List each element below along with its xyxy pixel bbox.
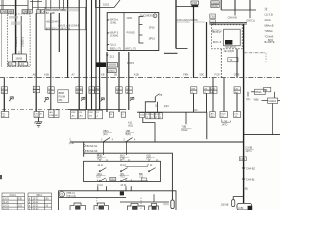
svg-text:D912: D912 [182, 129, 189, 132]
svg-text:YB: YB [159, 94, 163, 97]
wire U hook down [206, 112, 208, 139]
svg-text:N(3): N(3) [210, 21, 215, 24]
speaker unit 2 [94, 203, 109, 210]
wire trunk N [95, 0, 97, 110]
svg-text:C(N: C(N [140, 114, 144, 116]
svg-text:08B: 08B [8, 10, 13, 14]
wire trunk T [193, 7, 195, 78]
wire O cont [99, 94, 101, 111]
pin ticks inside B1 bottom [98, 180, 131, 182]
wire L-route under row2 [143, 118, 155, 142]
cluster bottom-right of bus: brake boxes [255, 87, 278, 103]
svg-text:2P16: 2P16 [149, 26, 155, 29]
wire trunk J [67, 0, 69, 78]
harness dashed box D1 [7, 14, 30, 67]
diamond CN4-B1 [242, 177, 245, 180]
svg-text:BCN4-N1: BCN4-N1 [87, 145, 98, 148]
annotation text block [265, 7, 275, 44]
wire trunk L [78, 0, 80, 110]
switch panel box B1 [84, 161, 161, 181]
svg-text:(X0-8X(1): (X0-8X(1) [225, 46, 236, 49]
wire Q cont [118, 94, 120, 113]
svg-text:11-21: 11-21 [33, 202, 39, 204]
wire K below bus [35, 78, 37, 112]
svg-text:(7(1: (7(1 [147, 157, 152, 160]
svg-text:BmWTE: BmWTE [265, 40, 275, 44]
speaker unit 4 [149, 203, 159, 210]
svg-text:(N1): (N1) [128, 124, 133, 127]
circled 6 [153, 14, 157, 18]
page border line left [1, 0, 3, 67]
svg-text:CN2: CN2 [95, 89, 100, 91]
svg-text:JE-4(X)B: JE-4(X)B [224, 50, 234, 53]
resistor pill [232, 200, 235, 207]
svg-text:CN: CN [34, 113, 38, 115]
svg-text:CN282-1: CN282-1 [21, 36, 24, 47]
wire stub A [2, 0, 4, 10]
stub to D912 [185, 112, 187, 124]
box C12 [110, 177, 116, 180]
circle connector (7)B [59, 192, 64, 197]
drop wire in B2 [153, 194, 155, 202]
component blob in B3 [225, 40, 232, 45]
svg-text:59C: 59C [200, 73, 205, 77]
harness dashed right drop [265, 53, 267, 62]
wire trunk K [35, 13, 37, 78]
svg-text:CN: CN [79, 112, 83, 114]
bus wire labels [33, 73, 240, 77]
ground [35, 122, 42, 127]
svg-text:FC8: FC8 [215, 73, 220, 77]
wire trunk U [206, 22, 208, 78]
svg-text:DP16: DP16 [149, 38, 156, 41]
svg-text:A7: A7 [72, 73, 76, 77]
connector CN8 top [191, 1, 198, 5]
connector box bottom right [237, 203, 252, 210]
svg-text:DBX3: DBX3 [127, 61, 134, 65]
wire horizontal to CN8 [176, 6, 194, 8]
wire drops H9 to B1 [103, 142, 105, 155]
svg-text:C12: C12 [110, 179, 115, 181]
svg-text:CN.: CN. [126, 89, 130, 91]
component box beside BLA [108, 62, 118, 67]
wire A cont [3, 94, 5, 112]
svg-text:C.: C. [159, 114, 162, 116]
dash segment harness [164, 52, 178, 54]
svg-text:88C1: 88C1 [37, 195, 43, 197]
table GSC1 [2, 193, 25, 210]
ground wire [38, 118, 40, 122]
wire drop from H9 [83, 142, 85, 157]
wire stub D [32, 0, 34, 10]
svg-text:(1/M): (1/M) [110, 22, 116, 25]
mid wires continue below ID row [4, 93, 119, 112]
svg-text:CN2: CN2 [88, 112, 93, 114]
svg-text:F1(10): F1(10) [211, 1, 218, 4]
svg-text:C(N): C(N) [240, 158, 245, 161]
component BLA (filled) [96, 62, 106, 67]
svg-text:F8N: F8N [183, 73, 188, 77]
box 8(X)0 [108, 69, 117, 73]
dashed vert harness YL [220, 49, 222, 78]
internal bus 1 in B2 [59, 197, 126, 199]
switch YB [155, 94, 159, 97]
svg-text:(CN1-62)(CN1-65): (CN1-62)(CN1-65) [177, 18, 198, 22]
svg-text:08): 08) [59, 98, 63, 102]
table 88C1 [28, 193, 52, 210]
svg-text:ZL3: ZL3 [110, 55, 115, 59]
wire double H5b [210, 23, 247, 25]
amplifier box 5151 [96, 0, 121, 8]
wire elbow S [176, 48, 188, 50]
svg-text:17-21: 17-21 [33, 209, 40, 210]
svg-text:B(08-03) 1 4.0B (CN8: B(08-03) 1 4.0B (CN8 [46, 27, 71, 30]
svg-text:(N)3: (N)3 [164, 105, 169, 108]
wire trunk G [50, 13, 52, 78]
switch contacts row1 in B1 [99, 168, 156, 172]
svg-text:ftBAmE: ftBAmE [265, 24, 274, 28]
svg-text:CN.: CN. [204, 89, 208, 91]
wire stub C [27, 0, 29, 10]
svg-text:CN3: CN3 [210, 16, 215, 19]
label [YL] box [228, 58, 238, 62]
pin stubs on B1 top [100, 159, 157, 161]
amplifier box B2 [59, 191, 176, 210]
svg-text:+B1 (CN4-02: +B1 (CN4-02 [46, 20, 61, 23]
wire trunk H [58, 0, 60, 10]
pin numbers below B1 [97, 185, 127, 187]
svg-text:GSC1: GSC1 [10, 195, 17, 197]
connector pin boxes under 2N93 [8, 62, 16, 66]
wire trunk B (thick) [15, 0, 17, 54]
svg-text:WB): WB) [254, 99, 259, 102]
svg-text:AtAA: AtAA [265, 18, 271, 22]
pin numbers row1 in B1 [98, 165, 153, 167]
edge mark bottom-left [0, 175, 2, 179]
wire top mark [30, 0, 42, 2]
connector CN30 left edge [210, 14, 216, 19]
smudge marks top of D1 [9, 16, 18, 19]
svg-text:CN.: CN. [2, 113, 6, 115]
svg-text:13-21: 13-21 [33, 198, 40, 200]
connector boxes F1(10)/B1(M) top far right [211, 1, 219, 8]
svg-text:ILL(-): ILL(-) [110, 43, 116, 46]
svg-text:CN.: CN. [48, 89, 52, 91]
label CLV2 [239, 157, 246, 161]
wire N cont [95, 94, 97, 111]
svg-text:C2B: C2B [120, 157, 125, 160]
svg-text:C(B): C(B) [238, 207, 243, 210]
label LOB/14TO [222, 119, 231, 122]
svg-text:CN.: CN. [34, 88, 38, 90]
svg-text:(21): (21) [103, 133, 108, 136]
svg-text:*2BNm: *2BNm [265, 29, 274, 33]
switch blade 1 on H9 [104, 138, 111, 142]
svg-text:CN3: CN3 [191, 89, 196, 91]
wire H9 (long) [70, 141, 244, 143]
svg-text:1.16: 1.16 [19, 63, 24, 66]
svg-text:J(1): J(1) [246, 98, 250, 101]
diamond BCN4-N6 [83, 150, 86, 153]
speaker unit 3 [128, 203, 145, 210]
wire bus H4 [221, 9, 256, 11]
wire W drop [234, 10, 236, 16]
svg-text:8(X)0: 8(X)0 [108, 70, 115, 73]
svg-text:A1B: A1B [134, 73, 139, 77]
wire stub E [37, 0, 39, 10]
wire U cont [206, 94, 208, 113]
svg-text:FU(M: FU(M [59, 95, 65, 99]
fuse box BRB FU(M08) [58, 90, 69, 103]
connector blob C(B) [120, 191, 124, 195]
svg-text:(C10: (C10 [69, 142, 75, 145]
harness dash-dot right [244, 52, 266, 54]
svg-text:B8&A: B8&A [255, 91, 262, 94]
wire cluster drop to H10 [272, 104, 274, 135]
svg-text:BCN.-6: BCN.-6 [213, 41, 222, 44]
hatch marks on ground [34, 122, 42, 124]
pin arrow ILL [107, 44, 110, 46]
switch contacts row2 in B1 [99, 178, 127, 182]
pin arrow BAT [107, 20, 110, 22]
svg-text:(CN)41: (CN)41 [110, 35, 119, 38]
svg-text:4a 11: 4a 11 [98, 165, 104, 167]
svg-text:C2C: C2C [234, 113, 239, 115]
svg-text:(X2): (X2) [97, 157, 102, 160]
svg-text:(217: (217 [97, 176, 102, 179]
diamond BCN4-N1 [83, 144, 86, 147]
wire row H7 [2, 108, 68, 110]
wire P below radio [106, 52, 108, 112]
svg-text:GN7(1): GN7(1) [246, 18, 255, 22]
connector CN9 [22, 10, 27, 14]
svg-text:5151: 5151 [103, 3, 110, 7]
svg-text:AC: AC [194, 109, 198, 112]
svg-text:(B[: (B[ [245, 188, 249, 191]
wire Z (from B3 bottom) [236, 49, 238, 78]
wire Q below radio [118, 52, 120, 112]
wire G below bus [50, 78, 52, 110]
dashed divider 2 in B2 [140, 198, 142, 210]
svg-text:14TO: 14TO [245, 150, 251, 153]
svg-text:CN: CN [146, 114, 150, 116]
svg-text:CN283-1: CN283-1 [15, 36, 18, 47]
svg-text:17-21: 17-21 [3, 209, 10, 210]
wire L cont [78, 94, 80, 111]
svg-text:C(X): C(X) [163, 203, 168, 206]
wire H8 [137, 111, 207, 113]
wire X drop [249, 10, 251, 18]
switch icon row1 left [9, 97, 48, 102]
svg-text:注:: 注: [265, 7, 269, 11]
svg-text:C9&A4: C9&A4 [268, 100, 276, 103]
wire dashed YL cont [212, 78, 214, 112]
wire R below radio [128, 52, 130, 110]
connector bracket inside U1 [139, 17, 144, 44]
wire double H5a [210, 21, 247, 23]
wire V [220, 0, 222, 10]
svg-text:Y1: Y1 [229, 58, 233, 62]
wire stub F [45, 0, 47, 10]
wires B1 to B2 [98, 186, 131, 191]
svg-text:2N: 2N [89, 92, 92, 94]
wire X [249, 0, 251, 10]
wire trunk O [99, 0, 101, 110]
connector row CN5/CN8 [1, 10, 33, 14]
svg-text:C9.: C9. [264, 89, 268, 92]
wire branch to resistor [233, 197, 243, 200]
wire inside D1 [20, 16, 22, 54]
switch blade 2 on H9 [126, 138, 133, 142]
wire trunk S [175, 0, 177, 49]
svg-text:CN5: CN5 [1, 10, 7, 14]
relay 2N93 [8, 51, 28, 67]
svg-text:CN.: CN. [2, 89, 6, 91]
wire right drop from row boxes [223, 78, 225, 112]
head unit box U1 [107, 13, 159, 51]
diamond CN4-B2 [242, 166, 245, 169]
svg-text:CN.: CN. [9, 63, 14, 66]
svg-text:GND: GND [127, 17, 133, 20]
wire top-left horizontal feed [0, 4, 28, 6]
pill connector [171, 200, 174, 209]
svg-text:BCN.-2: BCN.-2 [213, 31, 222, 34]
svg-text:(1) 3.5t: (1) 3.5t [265, 13, 274, 17]
svg-text:(7)B U(1): (7)B U(1) [66, 195, 76, 198]
box P11 [141, 178, 146, 181]
connector CN1 small [37, 10, 45, 14]
wire long to pill connector [84, 153, 173, 200]
wire A below bus [3, 78, 5, 112]
switch icons mid row [81, 97, 134, 102]
pin ticks on H9 [101, 140, 136, 142]
wire trunk M [85, 0, 87, 110]
svg-text:B1(M): B1(M) [211, 5, 218, 8]
harness boundary bus (dash-dot) [0, 77, 280, 79]
svg-text:11-21: 11-21 [3, 202, 9, 204]
label ZL3 with arrow [106, 55, 108, 58]
svg-text:*CNmE: *CNmE [265, 35, 274, 39]
svg-text:XB: XB [101, 73, 105, 77]
pin link line lower [125, 180, 148, 182]
wire YB loop above row2 [145, 97, 155, 112]
svg-text:79.2: 79.2 [120, 176, 125, 179]
wire H10 (right mid) [244, 134, 280, 136]
svg-text:(B): (B) [45, 198, 48, 200]
svg-text:A6: A6 [33, 73, 37, 77]
connector N(3) left edge [210, 20, 216, 25]
svg-text:CN.: CN. [116, 89, 120, 91]
svg-text:JB: JB [114, 73, 117, 77]
wire W [234, 0, 236, 10]
wire trunk N2 [91, 0, 93, 110]
dashed divider 1 in B2 [96, 198, 98, 210]
svg-text:B(B): B(B) [126, 133, 131, 136]
svg-text:2N93: 2N93 [16, 57, 23, 61]
wire thick trunk Y [243, 24, 245, 203]
internal bus 2 in B2 [120, 201, 169, 203]
connector blob under CN8 [191, 5, 198, 7]
pin link line upper [125, 165, 148, 167]
connector row2 boxes [1, 110, 240, 119]
wire stub I [63, 0, 65, 10]
wire K cont [35, 93, 37, 112]
junction text block box [45, 7, 86, 30]
svg-text:CN: CN [89, 89, 93, 91]
svg-text:BRB: BRB [59, 91, 65, 95]
wire stub right of loop [157, 102, 159, 112]
svg-text:CN6-N6: CN6-N6 [228, 16, 238, 20]
svg-text:12-21: 12-21 [3, 205, 10, 207]
svg-text:12-21: 12-21 [33, 205, 40, 207]
svg-text:0B: 0B [28, 10, 31, 14]
svg-text:A1B: A1B [44, 73, 49, 77]
svg-text:P/GND: P/GND [127, 31, 135, 34]
SECTION:TOPLEFT [79, 0, 129, 112]
svg-text:B2 .42B: B2 .42B [46, 12, 55, 15]
svg-text:13-21: 13-21 [3, 198, 10, 200]
divider in U1 [123, 13, 125, 51]
svg-text:1? 12: 1? 12 [147, 165, 153, 167]
svg-text:EBD.L (?): EBD.L (?) [110, 47, 121, 50]
svg-text:14TO: 14TO [222, 124, 228, 127]
connector ID row y87 (stacked 2-cell boxes) [1, 86, 240, 93]
wire right drop C2C [236, 94, 238, 112]
wire M cont [85, 94, 87, 111]
svg-text:-C: -C [122, 114, 125, 116]
svg-text:CN8: CN8 [192, 2, 198, 5]
svg-text:ANT.L (?): ANT.L (?) [125, 47, 136, 50]
svg-text:CN.: CN. [234, 89, 238, 91]
pin arrow B/UP [107, 33, 110, 35]
svg-text:CN: CN [37, 11, 41, 14]
wire T cont to H8 [193, 94, 195, 113]
svg-text:16 12: 16 12 [120, 165, 126, 167]
cluster wires [248, 92, 280, 135]
svg-text:Z: Z [18, 51, 20, 55]
svg-text:CN-6: CN-6 [220, 113, 226, 115]
svg-text:GNB: GNB [234, 73, 240, 77]
inner box in B3 [224, 29, 241, 46]
svg-text:CN8: CN8 [71, 112, 76, 114]
svg-text:13(X)B: 13(X)B [221, 203, 229, 206]
speaker unit 1 [70, 203, 86, 210]
receiver box B3 (dashed) [212, 25, 243, 49]
svg-text:CN4-B(: CN4-B( [246, 178, 255, 181]
svg-text:CN4-B2: CN4-B2 [246, 167, 256, 170]
